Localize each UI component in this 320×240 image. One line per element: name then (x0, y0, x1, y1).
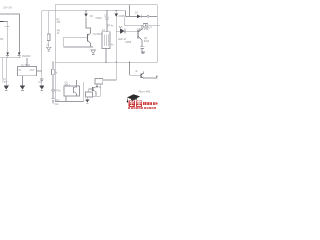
svg-text:Q1 9013: Q1 9013 (93, 33, 103, 36)
svg-text:47u: 47u (55, 99, 60, 102)
svg-text:9013: 9013 (144, 40, 150, 43)
svg-text:Outp: Outp (2, 80, 8, 83)
svg-text:IN: IN (19, 69, 22, 72)
svg-text:470u: 470u (55, 90, 61, 93)
svg-text:1N4002: 1N4002 (22, 54, 32, 58)
svg-text:2V~2V: 2V~2V (3, 6, 12, 10)
svg-text:OUT: OUT (30, 69, 36, 72)
svg-text:IC 7812: IC 7812 (21, 63, 31, 67)
svg-text:OUT: OUT (147, 26, 153, 29)
svg-text:R1: R1 (0, 37, 4, 41)
svg-text:CR05: CR05 (118, 15, 125, 18)
svg-text:9013: 9013 (65, 84, 71, 87)
svg-text:CR08: CR08 (125, 41, 132, 44)
svg-text:Out: Out (55, 103, 59, 106)
svg-text:TR 4x: TR 4x (107, 25, 114, 28)
svg-text:Rpm #91: Rpm #91 (139, 90, 152, 94)
svg-text:CR04: CR04 (96, 17, 103, 20)
